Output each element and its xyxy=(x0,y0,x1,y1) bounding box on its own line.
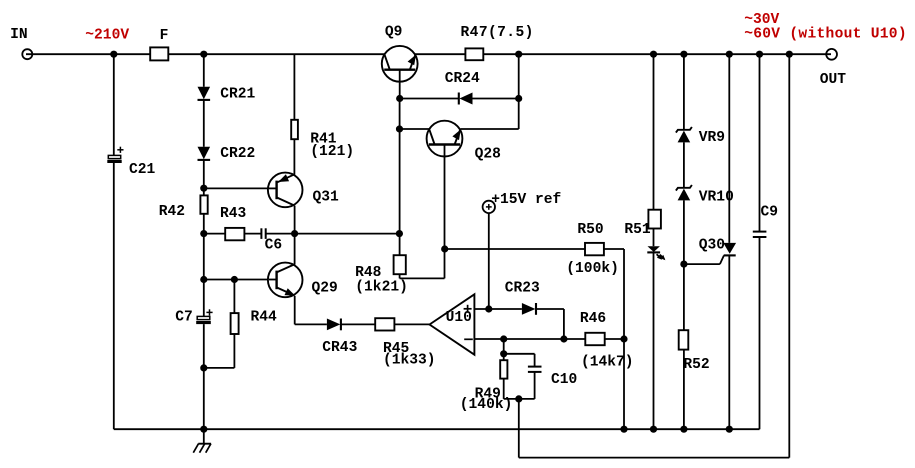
wire IN to fuse xyxy=(26,53,150,55)
junction fuse-right xyxy=(200,51,207,58)
junction R46 right xyxy=(620,335,627,342)
svg-text:R46: R46 xyxy=(580,311,606,327)
svg-text:Q31: Q31 xyxy=(313,189,340,205)
svg-text:Q9: Q9 xyxy=(385,25,403,41)
junction R44 top xyxy=(231,276,238,283)
wire minus input row xyxy=(474,338,585,340)
junction R50 node xyxy=(441,245,448,252)
junction R49 top node xyxy=(500,335,507,342)
wire R49 bottom lead xyxy=(503,379,505,399)
wire Q28 collector column xyxy=(444,156,446,278)
svg-text:CR24: CR24 xyxy=(445,71,480,87)
capacitor C6 xyxy=(261,228,265,239)
led indicator xyxy=(647,246,665,260)
svg-text:VR9: VR9 xyxy=(699,130,725,146)
wire R44 top lead xyxy=(233,280,235,314)
zener VR9 xyxy=(676,127,692,142)
wire minus to split xyxy=(503,339,505,360)
junction bus LEDcol xyxy=(650,426,657,433)
svg-text:IN: IN xyxy=(10,27,28,43)
junction gate node xyxy=(680,261,687,268)
resistor R45 xyxy=(375,318,394,330)
wire +15V to plus input xyxy=(488,213,490,309)
wire C6 to Q31 node xyxy=(266,233,400,235)
transistor Q31 xyxy=(268,173,303,208)
wire CR22 to R42 xyxy=(203,160,205,195)
node IN terminal xyxy=(22,49,32,59)
wire CR23 branch down xyxy=(563,309,565,339)
junction plus input xyxy=(485,305,492,312)
wire gate diagonal xyxy=(720,256,724,265)
junction Q29 base node xyxy=(200,276,207,283)
wire C10 top lead xyxy=(534,354,536,367)
junction Q30 top xyxy=(726,51,733,58)
wire down to C7 xyxy=(203,280,205,317)
resistor R42 xyxy=(200,195,207,213)
svg-text:~60V (without U10): ~60V (without U10) xyxy=(744,27,907,43)
resistor R41 xyxy=(291,120,298,139)
transistor Q28 xyxy=(427,121,463,157)
capacitor C21 xyxy=(107,147,123,163)
svg-text:(121): (121) xyxy=(310,144,354,160)
junction RC bottom xyxy=(515,395,522,402)
wire CR23 right xyxy=(536,308,564,310)
resistor R47 xyxy=(465,48,483,60)
svg-text:R42: R42 xyxy=(159,204,185,220)
junction CR24 left xyxy=(396,95,403,102)
diode CR24 xyxy=(459,93,473,105)
wire Q31-Q29 link xyxy=(294,234,296,265)
wire Q9 to OUT xyxy=(415,53,831,55)
junction C9 top xyxy=(756,51,763,58)
wire LED to ground bus xyxy=(653,252,655,429)
resistor R46 xyxy=(585,333,604,345)
wire bus to VR9 xyxy=(683,54,685,130)
diode CR21 xyxy=(198,87,211,100)
wire Q29 emitter xyxy=(294,296,296,325)
wire R48 bottom xyxy=(399,274,401,278)
junction Q31-Q29 node xyxy=(291,230,298,237)
wire feedback row xyxy=(519,457,790,459)
resistor R49 xyxy=(500,360,507,378)
junction bus Q30col xyxy=(726,426,733,433)
svg-text:R51: R51 xyxy=(624,222,651,238)
resistor R51 xyxy=(648,210,661,229)
svg-text:R48: R48 xyxy=(355,265,381,281)
svg-text:R47(7.5): R47(7.5) xyxy=(461,25,534,41)
thyristor Q30 xyxy=(723,243,736,256)
wire Q30 to ground bus xyxy=(728,255,730,429)
diode CR43 xyxy=(327,319,341,331)
svg-text:(1k33): (1k33) xyxy=(383,352,436,368)
svg-text:C10: C10 xyxy=(551,372,577,388)
junction R43 node xyxy=(200,230,207,237)
resistor R48 xyxy=(394,255,406,274)
wire plus input row xyxy=(474,308,522,310)
wire R48 to Q28 column xyxy=(400,277,445,279)
wire feedback down xyxy=(518,399,520,458)
svg-text:C7: C7 xyxy=(175,310,193,326)
wire R52 to ground bus xyxy=(683,350,685,430)
wire to CR21 xyxy=(203,54,205,87)
node +15V ref xyxy=(483,201,495,213)
fuse F xyxy=(150,47,168,60)
junction C7-R44 bottom xyxy=(200,364,207,371)
wire VR10 to R52 xyxy=(683,200,685,330)
svg-text:~210V: ~210V xyxy=(85,28,129,44)
junction VR9 top xyxy=(680,51,687,58)
svg-text:C6: C6 xyxy=(265,238,283,254)
wire gate row xyxy=(684,263,720,265)
wire R45 to U10 xyxy=(394,323,429,325)
svg-text:R50: R50 xyxy=(577,222,603,238)
svg-text:+15V ref: +15V ref xyxy=(491,192,561,208)
wire R47 column xyxy=(518,54,520,129)
junction ground xyxy=(200,426,207,433)
junction feedback top xyxy=(786,51,793,58)
wire input column upper xyxy=(113,54,115,156)
resistor R43 xyxy=(225,228,244,240)
junction R47 right xyxy=(515,51,522,58)
ground symbol xyxy=(193,429,211,453)
svg-text:F: F xyxy=(160,28,169,44)
capacitor C7 xyxy=(196,309,212,324)
diode CR23 xyxy=(522,303,536,315)
svg-text:CR43: CR43 xyxy=(322,340,357,356)
resistor R50 xyxy=(585,243,604,255)
diode CR22 xyxy=(198,147,211,160)
junction CR23 to minus row xyxy=(560,335,567,342)
capacitor C10 xyxy=(528,367,542,372)
wire R50 to R46 column xyxy=(623,249,625,429)
wire Q28 base lead xyxy=(400,128,430,130)
wire CR43 to R45 xyxy=(341,323,375,325)
wire bus to C9 xyxy=(759,54,761,231)
wire Q28 emitter lead xyxy=(460,128,518,130)
resistor R52 xyxy=(679,330,689,349)
wire node to R43 xyxy=(204,233,225,235)
junction R48 top node xyxy=(396,230,403,237)
wire input column lower xyxy=(113,163,115,429)
wire R51 to LED xyxy=(653,229,655,247)
wire R46 right xyxy=(605,338,624,340)
wire C9 to ground bus xyxy=(759,237,761,429)
wire Q29 base row xyxy=(204,279,277,281)
junction base node xyxy=(200,185,207,192)
wire R50 right xyxy=(604,248,624,250)
wire R42 to R43 node xyxy=(203,214,205,280)
svg-text:CR23: CR23 xyxy=(505,281,540,297)
wire ground bus xyxy=(114,428,760,430)
svg-text:(1k21): (1k21) xyxy=(355,280,408,296)
wire CR24 left lead xyxy=(400,98,459,100)
wire base row xyxy=(204,187,277,189)
svg-text:(100k): (100k) xyxy=(566,261,619,277)
wire CR24 right lead xyxy=(473,98,519,100)
svg-text:Q29: Q29 xyxy=(312,281,338,297)
wire CR21 to CR22 xyxy=(203,100,205,147)
wire bus to Q30 xyxy=(728,54,730,243)
wire bus to R51 xyxy=(653,54,655,210)
wire Q31 collector xyxy=(294,206,296,234)
svg-text:R44: R44 xyxy=(251,310,278,326)
svg-text:C9: C9 xyxy=(761,205,779,221)
svg-text:~30V: ~30V xyxy=(744,12,779,28)
junction Q28 base node xyxy=(396,125,403,132)
transistor Q9 xyxy=(382,46,418,99)
junction input top xyxy=(110,51,117,58)
svg-text:Q30: Q30 xyxy=(699,237,725,253)
svg-text:C21: C21 xyxy=(129,162,156,178)
wire C7 to ground bus xyxy=(203,324,205,429)
wire R41 to Q31 xyxy=(293,139,295,174)
wire RC bottom link xyxy=(504,398,535,400)
zener VR10 xyxy=(676,185,692,200)
transistor Q29 xyxy=(268,263,303,298)
junction bus R46col xyxy=(620,426,627,433)
wire R44 bottom link xyxy=(204,367,235,369)
wire Q29 to CR43 xyxy=(295,323,327,325)
svg-text:CR22: CR22 xyxy=(220,146,255,162)
node OUT terminal xyxy=(826,49,837,60)
junction bus R52col xyxy=(680,426,687,433)
junction CR24 right xyxy=(515,95,522,102)
junction RC split xyxy=(500,350,507,357)
svg-text:R43: R43 xyxy=(220,206,247,222)
wire R43 to C6 xyxy=(244,233,261,235)
wire feedback up column xyxy=(788,54,790,457)
svg-text:(14k7): (14k7) xyxy=(581,354,634,370)
wire VR9 to VR10 xyxy=(683,142,685,187)
wire fuse to Q9 xyxy=(168,53,384,55)
wire Q9 collector column xyxy=(399,99,401,256)
op-amp U10 xyxy=(430,294,475,354)
resistor R44 xyxy=(231,313,239,334)
wire split to C10 top xyxy=(504,353,535,355)
capacitor C9 xyxy=(753,232,767,237)
svg-text:CR21: CR21 xyxy=(220,87,255,103)
svg-text:U10: U10 xyxy=(446,310,472,326)
wire R44 bottom lead xyxy=(233,334,235,368)
junction R51 top xyxy=(650,51,657,58)
wire bus to R41 xyxy=(293,54,295,120)
svg-text:R52: R52 xyxy=(683,357,709,373)
svg-text:Q28: Q28 xyxy=(475,146,501,162)
svg-text:OUT: OUT xyxy=(820,72,847,88)
wire Q28 to R50 xyxy=(445,248,585,250)
wire C10 bottom lead xyxy=(534,372,536,399)
